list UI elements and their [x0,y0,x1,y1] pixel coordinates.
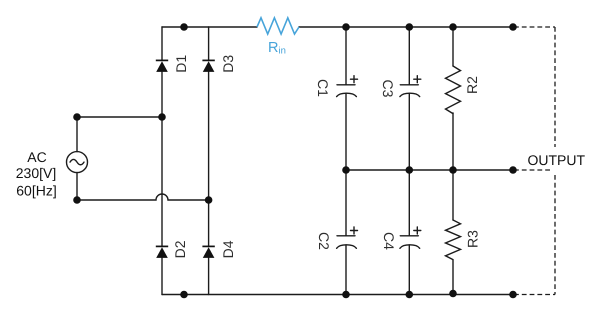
svg-text:AC: AC [27,149,46,165]
svg-text:C3: C3 [380,80,396,98]
svg-text:C1: C1 [315,79,331,97]
svg-text:OUTPUT: OUTPUT [528,152,586,168]
svg-text:D4: D4 [220,240,236,258]
svg-text:R2: R2 [464,76,480,94]
svg-text:D3: D3 [220,55,236,73]
svg-text:C4: C4 [381,232,397,250]
svg-text:R3: R3 [465,230,481,248]
svg-text:C2: C2 [316,232,332,250]
svg-text:D1: D1 [173,55,189,73]
svg-text:D2: D2 [172,240,188,258]
svg-text:230[V]: 230[V] [16,165,56,181]
svg-text:60[Hz]: 60[Hz] [16,182,56,198]
